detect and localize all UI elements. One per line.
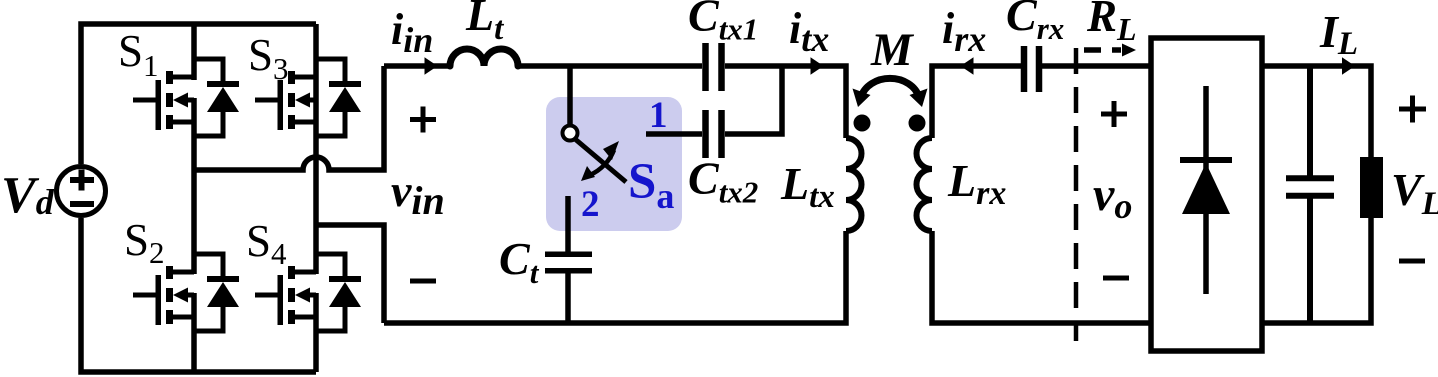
dashed boundary line	[1074, 48, 1079, 341]
wire top rail of bridge	[81, 24, 316, 164]
inductor Ltx coil	[846, 138, 862, 231]
transistor Q S3	[255, 71, 316, 130]
arrow itx	[811, 57, 824, 74]
load VL	[1360, 157, 1383, 218]
inductor Lrx coil	[916, 138, 932, 231]
svg-text:2: 2	[581, 184, 600, 225]
voltage source Vd	[57, 167, 106, 216]
label - (vo)	[1103, 276, 1129, 281]
capacitor Ctx2	[706, 110, 722, 158]
rectifier box	[1151, 38, 1262, 351]
arrow IL	[1342, 57, 1355, 74]
wire rectifier output top	[1262, 66, 1371, 160]
wire bridge output node B to vin-	[316, 225, 384, 323]
transistor Q S4	[255, 266, 316, 325]
label - (VL)	[1399, 259, 1425, 264]
wire bottom rail of bridge	[81, 218, 316, 372]
capacitor Crx	[1024, 46, 1039, 92]
mutual coupling arrow M	[853, 78, 928, 107]
capacitor output filter	[1286, 66, 1334, 323]
capacitor Ct	[545, 254, 592, 323]
diode body D2	[194, 254, 239, 331]
wire switch position 1 to Ctx2	[646, 131, 702, 137]
label + (vo)	[1101, 101, 1127, 127]
transformer dot primary	[854, 115, 871, 132]
dashed arrow RL	[1084, 44, 1136, 57]
transistor Q S2	[133, 266, 194, 325]
switch Sa toggle arc arrow	[581, 141, 619, 181]
wire Ctx2 to node	[725, 66, 782, 134]
wire Lrx top to Crx	[932, 66, 1021, 138]
wire load bottom	[1262, 218, 1371, 323]
switch Sa pivot and blade	[563, 126, 627, 183]
capacitor Ctx1	[706, 43, 722, 91]
wire Crx to rectifier	[1042, 63, 1151, 69]
wire leg 1 (S1/S2 half-bridge)	[191, 24, 197, 372]
diode rectifier	[1180, 86, 1232, 294]
svg-text:1: 1	[649, 95, 668, 136]
transformer dot secondary	[909, 115, 926, 132]
label + (vin)	[410, 107, 436, 133]
wire leg 2 (S3/S4 half-bridge)	[313, 24, 319, 372]
diode body D4	[316, 254, 361, 331]
label + (VL)	[1399, 96, 1426, 123]
arrow irx	[961, 57, 974, 74]
arrow iin	[425, 57, 438, 74]
diode body D3	[316, 59, 361, 136]
wire input top rail (iin wire)	[384, 63, 702, 69]
wire Lrx bottom rail	[932, 231, 1151, 323]
switch Sa highlight box	[546, 97, 682, 231]
svg-text:M: M	[870, 24, 915, 76]
wire bridge output node A to vin+ (with hop over leg2)	[194, 66, 384, 170]
label - (vin)	[410, 279, 436, 284]
wire switch common from Lt node	[567, 66, 573, 126]
wire Ltx bottom to rail	[384, 231, 846, 323]
transistor Q S1	[133, 71, 194, 130]
inductor Lt	[450, 49, 518, 66]
diode body D1	[194, 59, 239, 136]
wire switch position 2 to Ct	[565, 196, 571, 253]
wire Ctx1 to Ltx top	[725, 66, 846, 138]
